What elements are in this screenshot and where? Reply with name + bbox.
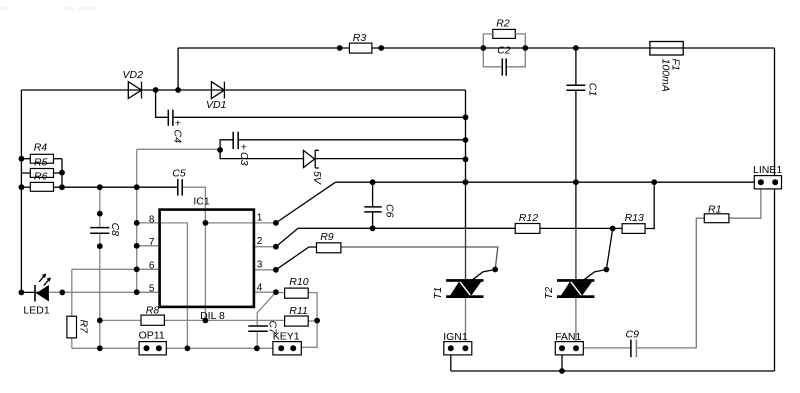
wire R6 left stub (21, 186, 30, 188)
wire C4 branch right y=117.3 (173, 116, 466, 118)
fuse F1 (650, 42, 683, 56)
wire IC1 internal net to pin1 and down to R8 (gray) (205, 210, 254, 321)
svg-text:LED1: LED1 (23, 305, 49, 317)
R2/C2 parallel frame (gray) (483, 34, 525, 67)
svg-text:100mA: 100mA (659, 59, 671, 92)
wire pin rail x=136.7 (gray) (136, 149, 138, 292)
svg-text:R3: R3 (353, 32, 367, 44)
node dots VD line (153, 87, 159, 93)
svg-text:R5: R5 (34, 156, 48, 168)
wire 5V zener branch left (220, 150, 303, 159)
svg-text:R10: R10 (289, 276, 308, 288)
svg-text:4: 4 (257, 283, 263, 294)
wire R4 right stub (54, 158, 63, 160)
svg-text:C8: C8 (109, 223, 121, 237)
svg-text:R4: R4 (34, 142, 48, 154)
svg-text:R11: R11 (289, 305, 307, 317)
svg-text:5V: 5V (311, 171, 323, 185)
svg-text:3: 3 (257, 260, 263, 271)
svg-text:IC1: IC1 (193, 196, 210, 208)
wire T2 vertical lower (gray) (575, 297, 577, 348)
node dot LED wire (59, 290, 65, 296)
node dots IC1 internal (203, 220, 209, 226)
wire C6 stub upper (372, 182, 374, 207)
capacitor C9 plates (630, 340, 632, 358)
svg-text:T1: T1 (432, 287, 444, 299)
LED LED1 (35, 273, 51, 301)
wire pin4 to R10 (276, 292, 285, 294)
svg-text:C9: C9 (626, 329, 640, 341)
diode VD1 (211, 82, 224, 99)
wire pin6 stub extended to R7 (72, 268, 160, 270)
svg-text:R7: R7 (78, 320, 90, 335)
capacitor C1 plates (566, 85, 585, 90)
node dots top rail (337, 45, 343, 51)
wire C4 branch left (156, 90, 169, 117)
resistor R8 (141, 315, 164, 325)
wire 5V zener branch right y=158.6 (316, 158, 466, 160)
wire vertical x=178.1 linking top rail to VD1 anode node (177, 48, 179, 90)
wire C9 left to FAN1 (576, 347, 631, 349)
node dot R13 left / T2 gate (610, 226, 616, 232)
node dots left vertical (19, 156, 25, 162)
wire pin4 stub (254, 291, 276, 293)
resistor R10 (285, 288, 309, 298)
node dots IC1 right pins (273, 220, 279, 226)
capacitor C7 plates (248, 326, 268, 331)
wire C3 branch right y=139.8 (238, 139, 465, 141)
capacitor C5 plates (178, 179, 182, 196)
capacitor C2 plates (502, 58, 506, 75)
wire top rail y=48 from x=178 to right corner x=774.5 (178, 47, 774, 49)
wire R5 left stub (21, 172, 30, 174)
wire R13 right corner up to LINE1 net (645, 182, 654, 228)
capacitor C6 plates (364, 207, 382, 212)
node dots C8 line (97, 211, 103, 217)
svg-text:C5: C5 (172, 167, 186, 179)
wire LED anode segment (21, 291, 49, 293)
resistor R11 (285, 316, 309, 326)
svg-text:R6: R6 (34, 170, 48, 182)
connector LINE1 (754, 176, 781, 189)
resistor R2 (493, 29, 516, 38)
node dots triac gates (492, 267, 498, 273)
svg-text:R12: R12 (519, 212, 538, 224)
wire C3 gray stub y=149.3 (137, 148, 220, 150)
resistor R7 (67, 316, 77, 338)
node dot C3 junction (217, 147, 223, 153)
wire bottom rail y=371 (451, 370, 775, 372)
svg-text:R1: R1 (708, 204, 721, 216)
wire C3 branch left riser (220, 140, 233, 150)
wire T2 vertical upper (dark) (575, 228, 577, 280)
wire R6 right stub (54, 186, 63, 188)
node dot R13 up at LINE1 net (651, 179, 657, 185)
svg-text:7: 7 (149, 237, 155, 248)
wire T1 gate hook (472, 270, 495, 280)
wire C6 stub lower (372, 212, 374, 228)
wire T2 gate from R13 node (584, 229, 613, 280)
wire IC1 internal pin8 net down to OP11 (gray) (160, 223, 188, 348)
faint header artifacts (0, 7, 96, 11)
svg-text:5: 5 (149, 283, 155, 294)
svg-text:T2: T2 (543, 287, 555, 299)
resistor R13 (622, 224, 645, 234)
node dot bottom rail (559, 368, 565, 374)
node dots R4-R6 right (59, 170, 65, 176)
resistor R3 (349, 43, 372, 53)
resistor R9 (317, 243, 341, 253)
diode VD2 (128, 82, 141, 99)
wire C1/T2 vertical x=575.9 (575, 48, 577, 228)
wire pin2 diagonal (276, 228, 298, 246)
wire R11 right stub (308, 320, 317, 322)
wire pin7 stub (137, 245, 160, 247)
svg-text:R9: R9 (320, 231, 334, 243)
svg-text:R8: R8 (146, 304, 160, 316)
wire C8 line x=99.8 (99, 187, 101, 348)
capacitor C3 plates (233, 132, 238, 149)
resistor R4 (30, 154, 53, 163)
svg-text:C6: C6 (384, 204, 396, 218)
wire LINE1 net y=182.2 (336, 181, 761, 183)
wire R9 right to T1 gate (341, 247, 498, 270)
wire pin1 stub (254, 222, 276, 224)
wire C5 right into IC1 top (gray) (182, 187, 205, 209)
wire FAN1 left pin drop (561, 348, 563, 371)
wire vertical x=465.5 from VD1 line down (465, 90, 467, 228)
wire LINE1 right pin down to bottom rail (774, 189, 776, 371)
resistor R12 (515, 224, 540, 234)
svg-text:LINE1: LINE1 (753, 164, 782, 176)
wire IGN1 left pin drop (450, 348, 452, 371)
resistor R5 (30, 169, 53, 178)
wire R12 to R13 y=228.5 (540, 227, 622, 229)
wire x=62 vertical joining R4-R6 (61, 159, 63, 188)
wire R10 right corner (308, 293, 317, 321)
svg-text:+: + (175, 117, 181, 129)
svg-text:8: 8 (149, 214, 155, 225)
svg-text:1: 1 (257, 213, 263, 224)
node dot T2 vertical at LINE1 net (573, 179, 579, 185)
wire T1 vertical upper (dark) (465, 228, 467, 280)
svg-text:IGN1: IGN1 (443, 331, 468, 343)
wire pin5/LED gray segment (49, 291, 160, 293)
wire left vertical x=21.4 (20, 90, 22, 292)
connector IGN1 (444, 342, 472, 355)
wire R1 left down to C9 (636, 218, 704, 348)
wire T1 vertical lower (gray) (465, 297, 467, 348)
svg-text:FAN1: FAN1 (555, 331, 581, 343)
wire pin8 stub (137, 222, 160, 224)
IC U1 body IC1 (160, 210, 254, 307)
wire R5 right stub (54, 172, 63, 174)
wire pin2 stub (254, 246, 276, 248)
svg-text:R2: R2 (496, 18, 510, 30)
wire OP11/KEY1 bottom line y=348.3 (72, 347, 281, 349)
svg-text:OP11: OP11 (139, 330, 165, 342)
wire R7 lower drop (71, 338, 73, 348)
wire R7 riser (71, 269, 73, 316)
node dots x=465.5 (463, 114, 469, 120)
wire pin1 diagonal (276, 182, 336, 223)
wire LINE1 left pin to R1 (729, 189, 761, 218)
svg-text:2: 2 (257, 236, 263, 247)
wire y=187.2 net to C5 (62, 186, 178, 188)
wire y=228.3 to R12 (298, 227, 515, 229)
resistor R6 (30, 182, 53, 191)
zener diode 5V (304, 150, 319, 168)
triac T2 (557, 279, 594, 298)
resistor R1 (704, 214, 729, 223)
capacitor C4 plates (168, 110, 173, 126)
wire pin3 stub (254, 269, 276, 271)
svg-text:VD2: VD2 (123, 69, 144, 81)
svg-text:C3: C3 (238, 152, 250, 166)
wire VD2/VD1 line y=90 (21, 89, 465, 91)
wire pin3 diagonal to R9 (276, 247, 317, 270)
svg-text:C4: C4 (171, 130, 183, 144)
svg-text:C1: C1 (586, 83, 598, 96)
capacitor C8 plates (90, 228, 109, 234)
svg-text:6: 6 (149, 261, 155, 272)
node dot C7 bottom (254, 345, 260, 351)
triac T1 (446, 279, 483, 298)
svg-text:DIL 8: DIL 8 (200, 310, 225, 322)
wire right vertical x=774.5 down to LINE1 top (774, 48, 776, 176)
connector KEY1 (273, 342, 301, 355)
svg-text:R13: R13 (625, 212, 644, 224)
svg-text:C2: C2 (497, 44, 511, 56)
WIRES-TOP (21, 159, 774, 371)
connector OP11 (139, 342, 166, 355)
node dots y=187.2 net (97, 184, 103, 190)
connector FAN1 (555, 342, 583, 355)
svg-text:VD1: VD1 (206, 99, 226, 111)
node dot R10/R11 join (314, 318, 320, 324)
wire KEY1 right riser (293, 321, 317, 348)
node dots C6 (370, 179, 376, 185)
wire R8/R11 line y=320.4 (100, 319, 285, 321)
wire C7 lower stub (256, 331, 258, 348)
wire R4 left stub (21, 158, 30, 160)
svg-text:KEY1: KEY1 (273, 330, 300, 342)
node dots pin rail (134, 220, 140, 226)
wire C7 diagonal from pin4 (257, 292, 276, 326)
